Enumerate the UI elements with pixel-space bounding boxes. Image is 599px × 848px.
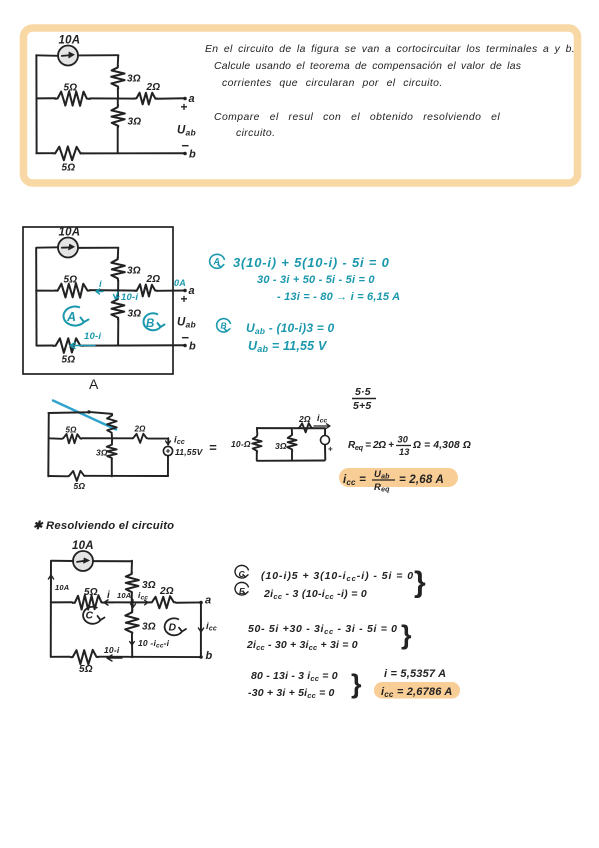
marker circled E <box>235 582 248 595</box>
resistor R4 3ohm lower (circuit1) <box>111 105 124 127</box>
wire: right vertical drop to R1 (circuit1) <box>117 55 120 65</box>
icc arrowhead down <box>166 441 171 445</box>
resistor small 5ohm middle <box>62 434 82 443</box>
icc arrow right circuit <box>314 424 330 428</box>
resistor 2ohm on top edge right circuit <box>298 423 313 432</box>
orange highlight icc result 1 <box>339 468 458 487</box>
wire: bottom horizontal to terminal b (circuit2) <box>83 344 185 346</box>
resistor 10ohm on left edge <box>252 428 261 461</box>
resistor 3ohm upper (circuit4) <box>126 572 139 603</box>
wire: top left vertical (circuit1) <box>35 55 37 153</box>
resistor 2ohm (circuit4) <box>150 596 176 608</box>
svg-text:E: E <box>239 586 245 596</box>
resistor 5ohm middle (circuit4) <box>72 595 104 609</box>
resistor small 3ohm upper <box>107 414 117 435</box>
svg-text:5Ω: 5Ω <box>64 275 78 286</box>
svg-text:A: A <box>213 257 221 267</box>
svg-text:5Ω: 5Ω <box>74 481 86 491</box>
wire: bottom horizontal (circuit4) <box>51 656 69 658</box>
blue strike line across removed source <box>53 401 116 430</box>
svg-text:circuito.: circuito. <box>236 128 275 139</box>
resistor small 5ohm bottom <box>68 471 86 481</box>
svg-text:3Ω: 3Ω <box>127 74 141 85</box>
svg-text:5Ω: 5Ω <box>62 163 76 174</box>
svg-text:}: } <box>414 566 426 599</box>
svg-text:b: b <box>189 341 196 353</box>
svg-text:corrientes que circularan: corrientes que circularan por el circuit… <box>222 78 443 89</box>
svg-text:3Ω: 3Ω <box>127 266 141 277</box>
svg-text:(10-i)5 + 3(10-icc-i) - 5i =: (10-i)5 + 3(10-icc-i) - 5i = 0 <box>261 570 414 583</box>
svg-text:3Ω: 3Ω <box>142 580 156 591</box>
current source I1 (circuit4) <box>73 551 93 571</box>
svg-text:10-Ω: 10-Ω <box>231 439 251 449</box>
wire: middle horizontal center (circuit2) <box>90 289 136 291</box>
wire: small circuit top with junction dot <box>48 412 112 414</box>
resistor 3ohm lower (circuit4) <box>125 602 139 634</box>
svg-text:B: B <box>146 318 155 330</box>
svg-text:-30 + 3i + 5icc = 0: -30 + 3i + 5icc = 0 <box>248 687 335 700</box>
svg-text:5Ω: 5Ω <box>64 83 78 94</box>
svg-text:3Ω: 3Ω <box>142 622 156 633</box>
svg-text:5Ω: 5Ω <box>79 664 93 675</box>
svg-text:10-i: 10-i <box>104 645 120 655</box>
wire: left vertical with up arrow (circuit4) <box>50 561 52 657</box>
svg-text:30: 30 <box>398 435 409 445</box>
svg-text:10A: 10A <box>55 583 69 592</box>
svg-text:5Ω: 5Ω <box>62 355 76 366</box>
wire: middle horizontal left (circuit4) <box>51 601 72 603</box>
svg-text:Compare el resul con el o: Compare el resul con el obtenido resolvi… <box>214 112 500 123</box>
wire: right small circuit top <box>257 427 325 429</box>
wire: top horizontal (circuit4) <box>51 561 132 572</box>
teal mesh loop A marker (circuit2) <box>64 307 89 326</box>
wire: small middle horizontal <box>49 437 62 439</box>
svg-text:Calcule usando el teorema d: Calcule usando el teorema de compensació… <box>214 61 521 72</box>
source circle right circuit <box>324 428 326 436</box>
svg-text:5Ω: 5Ω <box>84 587 98 598</box>
svg-text:80 - 13i - 3 icc = 0: 80 - 13i - 3 icc = 0 <box>251 670 338 683</box>
svg-text:A: A <box>66 310 76 324</box>
svg-text:- 13i = - 80 → i = 6,15: - 13i = - 80 → i = 6,15 A <box>277 291 400 303</box>
svg-text:}: } <box>401 620 412 650</box>
resistor R2 5ohm middle (circuit2) <box>55 283 90 297</box>
wire: source to bottom right corner <box>167 456 169 476</box>
resistor 3ohm center branch right circuit <box>287 428 296 460</box>
resistor R1 3ohm upper (circuit1) <box>111 66 124 89</box>
svg-text:3Ω: 3Ω <box>275 441 287 451</box>
svg-text:2Ω: 2Ω <box>146 82 161 93</box>
current source I1 10A (circuit2) <box>58 238 78 258</box>
terminal a (circuit1) <box>183 97 187 101</box>
wire: small bottom horizontal <box>49 475 68 477</box>
svg-text:10A: 10A <box>117 591 131 600</box>
wire: top left vertical (circuit2) <box>35 248 37 345</box>
marker circled C <box>235 565 248 578</box>
svg-text:10-i: 10-i <box>84 331 101 342</box>
wire: right vertical drop to R1 (circuit2) <box>117 248 119 258</box>
svg-text:=: = <box>209 440 217 455</box>
svg-text:B: B <box>221 321 227 331</box>
svg-text:2Ω: 2Ω <box>159 586 174 597</box>
svg-text:i = 5,5357 A: i = 5,5357 A <box>384 668 446 680</box>
wire: top horizontal (circuit2) <box>37 246 119 249</box>
svg-text:2Ω: 2Ω <box>134 425 147 434</box>
svg-text:3Ω: 3Ω <box>96 448 108 458</box>
svg-text:−: − <box>182 138 190 153</box>
wire: small middle to icc arrow <box>148 438 168 444</box>
wire: R1 to middle node (circuit2) <box>117 280 119 290</box>
svg-text:✱ Resolviendo el circuito: ✱ Resolviendo el circuito <box>33 520 174 532</box>
resistor R5 5ohm bottom (circuit1) <box>53 146 83 160</box>
teal marker circled A <box>210 254 225 268</box>
resistor R1 3ohm upper (circuit2) <box>111 257 125 281</box>
wire: lower branch to bottom with arrow (circuit4) <box>131 635 133 657</box>
wire: bottom horizontal left (circuit2) <box>37 345 53 347</box>
wire: middle horizontal center (circuit1) <box>90 97 135 99</box>
wire: middle horizontal left (circuit1) <box>37 97 56 99</box>
terminal b (circuit4) <box>199 655 203 659</box>
enclosure box of circuit 2 <box>23 227 173 374</box>
svg-text:+: + <box>328 445 333 454</box>
terminal b (circuit2) <box>183 344 187 348</box>
wire: small circuit left vertical <box>47 413 49 476</box>
svg-text:+: + <box>181 100 188 114</box>
svg-text:D: D <box>169 622 177 634</box>
svg-text:2Ω: 2Ω <box>298 414 311 424</box>
wire: middle to a (circuit4) <box>176 601 201 603</box>
mesh loop C marker (circuit4) <box>83 607 104 624</box>
teal arrow left under i (circuit2) <box>96 289 103 294</box>
svg-text:50- 5i +30 - 3icc - 3i - 5i: 50- 5i +30 - 3icc - 3i - 5i = 0 <box>248 623 398 636</box>
resistor R4 3ohm lower (circuit2) <box>111 298 124 320</box>
svg-text:13: 13 <box>399 447 410 457</box>
resistor R3 2ohm (circuit2) <box>135 284 157 296</box>
svg-text:b: b <box>189 149 196 161</box>
wire: middle horizontal center (circuit4) <box>104 601 150 603</box>
wire: bottom horizontal to terminal b (circuit1) <box>83 152 185 154</box>
wire: bottom to b (circuit4) <box>99 656 201 658</box>
svg-text:C: C <box>239 569 246 579</box>
mesh loop D marker (circuit4) <box>165 618 186 635</box>
teal arrow down at center node (circuit2) <box>114 292 120 299</box>
svg-text:Ω = 4,308 Ω: Ω = 4,308 Ω <box>412 440 471 451</box>
wire: middle horizontal left (circuit2) <box>36 290 55 292</box>
terminal b (circuit1) <box>183 152 187 156</box>
teal mesh loop B marker (circuit2) <box>144 313 165 330</box>
svg-text:11,55V: 11,55V <box>175 447 204 457</box>
wire: top horizontal (circuit1) <box>36 54 118 57</box>
wire: bottom horizontal left (circuit1) <box>36 152 53 154</box>
teal arrow left on bottom wire (circuit2) <box>70 343 95 349</box>
svg-text:5+5: 5+5 <box>353 400 371 412</box>
current source I1 10A (circuit1) <box>58 46 78 66</box>
svg-text:C: C <box>86 610 94 622</box>
resistor R2 5ohm middle (circuit1) <box>55 91 90 105</box>
svg-text:2Ω: 2Ω <box>146 274 161 285</box>
wire: right vertical a to b (circuit4) <box>200 603 202 657</box>
wire: center branch below middle (circuit1) <box>117 98 119 105</box>
wire: center branch to bottom (circuit1) <box>117 128 119 154</box>
svg-text:3Ω: 3Ω <box>128 117 142 128</box>
svg-text:A: A <box>89 376 99 392</box>
svg-text:10A: 10A <box>59 35 81 47</box>
terminal a (circuit2) <box>183 289 187 293</box>
svg-text:10-i: 10-i <box>121 292 138 303</box>
wire: middle horizontal to terminal a (circuit2) <box>157 290 185 292</box>
svg-text:5·5: 5·5 <box>355 386 371 398</box>
svg-text:3(10-i) + 5(10-i) - 5i = 0: 3(10-i) + 5(10-i) - 5i = 0 <box>233 255 390 270</box>
wire: right small circuit bottom <box>257 459 324 461</box>
svg-text:a: a <box>205 595 211 607</box>
resistor small 2ohm <box>132 434 148 443</box>
svg-text:a: a <box>189 93 195 105</box>
problem statement frame <box>24 28 578 183</box>
wire: R1 to middle node (circuit1) <box>117 89 119 99</box>
svg-text:3Ω: 3Ω <box>128 309 142 320</box>
resistor R5 5ohm bottom (circuit2) <box>53 338 83 353</box>
svg-text:En el circuito de la figura se: En el circuito de la figura se van a cor… <box>205 44 575 55</box>
icc down arrow right side (circuit4) <box>198 618 203 632</box>
wire: center branch below middle (circuit2) <box>117 290 119 297</box>
teal marker circled B <box>217 319 231 332</box>
terminal a (circuit4) <box>199 601 203 605</box>
svg-text:0A: 0A <box>174 278 186 288</box>
svg-text:}: } <box>351 669 362 699</box>
svg-text:−: − <box>182 330 190 345</box>
svg-text:+: + <box>181 292 188 306</box>
voltage source circle 11,55V <box>163 446 172 455</box>
svg-text:5Ω: 5Ω <box>66 426 78 435</box>
wire: small middle horizontal 2 <box>82 437 132 439</box>
orange highlight icc result 2 <box>374 682 460 699</box>
center branch small lower 3ohm <box>111 439 113 444</box>
wire: middle horizontal to terminal a (circuit1) <box>157 97 185 100</box>
svg-text:= 2,68 A: = 2,68 A <box>399 474 444 486</box>
svg-text:10A: 10A <box>59 227 81 239</box>
svg-text:a: a <box>189 285 195 297</box>
wire: center branch to bottom (circuit2) <box>117 319 119 345</box>
svg-text:10 -icc-i: 10 -icc-i <box>138 638 170 650</box>
resistor 5ohm bottom (circuit4) <box>70 650 99 664</box>
resistor R3 2ohm (circuit1) <box>135 93 157 105</box>
svg-text:30 - 3i + 50 - 5i - 5i = 0: 30 - 3i + 50 - 5i - 5i = 0 <box>257 274 375 286</box>
svg-text:b: b <box>206 650 213 662</box>
